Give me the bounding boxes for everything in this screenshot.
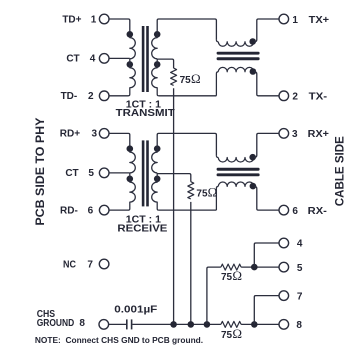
svg-text:2: 2 [88,91,94,102]
junction dot R3 branch to ground rail [204,321,211,328]
choke L2 top winding [218,158,254,162]
choke L1 bottom winding left lead [216,72,218,96]
wire T1 secondary top to choke L1 [157,19,216,40]
svg-text:Ω: Ω [232,268,242,283]
terminal pin 5 circle [99,168,109,178]
svg-text:TX+: TX+ [309,15,330,26]
terminal pin 8 circle (right) [279,320,289,330]
svg-text:3: 3 [292,129,298,140]
junction dot R1 to ground rail [170,321,177,328]
choke L2 bottom winding [218,182,254,186]
terminal pin 4 circle [99,54,109,64]
svg-text:1: 1 [91,14,97,25]
junction dot node pins 7/8 [251,321,258,328]
choke L2 core bar bottom [217,173,260,176]
transformer T1 secondary dot (center) [154,61,161,68]
wire T2 secondary bottom rail to choke L2 bottom [159,209,217,211]
svg-text:4: 4 [297,239,303,250]
transformer T2 core bar left [142,140,145,206]
wire R3 to node pins 4/5 [241,266,279,268]
svg-text:4: 4 [90,54,96,65]
transformer T1 primary bottom half winding [128,59,135,96]
terminal pin 2 circle (right) [279,91,289,101]
choke L1 core bar bottom [217,57,260,60]
svg-text:NOTE: Connect CHS GND to PCB: NOTE: Connect CHS GND to PCB ground. [35,336,203,345]
wire pin1 to T1 primary top [109,19,130,31]
wire ground rail up to resistor R3 [207,267,221,324]
resistor R1 75 ohm (transmit termination) [171,68,177,85]
terminal pin 5 circle (right) [279,262,289,272]
resistor R2 75 ohm (receive termination) [188,182,194,199]
choke L2 top winding dot [249,154,256,161]
svg-text:RD+: RD+ [60,129,80,140]
wire pin5 to T2 primary center tap [109,172,130,174]
resistor R3 75 ohm (pins 4/5 termination) [221,264,241,270]
svg-text:GROUND: GROUND [37,318,74,329]
choke L1 top winding dot [249,38,256,45]
transformer T2 primary dot (top) [127,145,134,152]
wire T1 secondary center tap to R1 [157,59,173,68]
terminal pin 1 circle [99,14,109,24]
wire T2 secondary center tap to R2 [157,174,191,182]
wire R1 bottom to chassis ground rail [173,88,175,324]
wire pin6 to T2 primary bottom [109,209,129,211]
wire choke L2 bottom to pin 6 RX- [254,186,279,210]
wire choke L2 top to pin 3 RX+ [254,133,279,157]
transformer T2 core bar right [146,140,149,206]
choke L1 bottom winding [218,67,254,71]
choke L2 bottom winding left lead [216,186,218,210]
terminal pin 1 circle (right) [279,14,289,24]
transformer T1 core bar right [146,26,149,92]
terminal pin 6 circle [99,205,109,215]
chassis ground rail [132,323,279,325]
svg-text:75: 75 [221,272,233,283]
wire pin3 to T2 primary top [109,133,130,145]
transformer T2 primary top half winding [130,151,136,173]
svg-text:1: 1 [292,15,298,26]
wire node up to pin 4 [254,243,279,267]
svg-text:NC: NC [63,259,76,270]
svg-text:3: 3 [92,129,98,140]
transformer T1 primary dot (center) [127,61,134,68]
terminal pin 4 circle (right) [279,238,289,248]
wire R2 bottom to chassis ground rail [190,202,192,325]
transformer T1 secondary bottom half winding [152,59,159,96]
transformer T2 primary dot (center) [127,176,134,183]
wire node up to pin 7 [254,296,279,325]
svg-text:8: 8 [79,318,85,329]
transformer T2 secondary dot (center) [154,176,161,183]
wire pin8 to capacitor C1 [109,323,127,325]
svg-text:7: 7 [297,292,303,303]
wire choke L1 top to pin 1 TX+ [254,19,279,42]
svg-text:75: 75 [180,75,192,86]
junction dot R2 to ground rail [188,321,195,328]
terminal pin 3 circle (right) [279,129,289,139]
transformer T1 core bar left [142,26,145,92]
transformer T1 primary dot (top) [127,31,134,38]
capacitor C1 left plate [126,319,128,329]
choke L1 core bar top [217,52,260,55]
svg-text:2: 2 [292,92,298,103]
junction dot node pins 4/5 [251,264,258,271]
wire T2 secondary top to choke L2 [157,133,216,155]
svg-text:75: 75 [221,330,233,341]
wire T1 secondary bottom rail to choke L1 bottom [159,95,217,97]
transformer T1 secondary top half winding [152,31,158,58]
transformer T1 primary top half winding [130,37,136,59]
choke L1 bottom winding dot [250,68,257,75]
svg-text:RX+: RX+ [308,129,329,140]
choke L2 top winding left lead [216,156,218,158]
choke L1 top winding left lead [216,40,218,42]
transformer T2 secondary top half winding [152,146,158,173]
terminal pin 8 circle (left) [99,320,109,330]
svg-text:RD-: RD- [60,206,78,217]
terminal pin 2 circle [99,91,109,101]
choke L2 bottom winding dot [250,183,257,190]
svg-text:0.001µF: 0.001µF [114,305,157,316]
svg-text:Ω: Ω [191,71,201,86]
svg-text:CABLE SIDE: CABLE SIDE [332,136,346,206]
svg-text:6: 6 [88,206,94,217]
svg-text:7: 7 [87,259,93,270]
transformer T2 primary bottom half winding [128,173,135,210]
svg-text:75: 75 [196,189,208,200]
svg-text:RECEIVE: RECEIVE [117,223,167,234]
transformer T1 secondary dot (top) [154,31,161,38]
svg-text:RX-: RX- [308,206,327,217]
wire choke L1 bottom to pin 2 TX- [254,72,279,96]
svg-text:Ω: Ω [232,326,242,341]
wire pin4 to T1 primary center tap [109,57,130,59]
terminal pin 7 circle (right) [279,291,289,301]
svg-text:5: 5 [88,168,94,179]
transformer T2 secondary dot (top) [154,145,161,152]
svg-text:TD+: TD+ [62,14,81,25]
svg-text:CT: CT [65,168,78,179]
terminal pin 7 circle (left, NC) [99,259,109,269]
svg-text:8: 8 [296,320,302,331]
svg-text:6: 6 [292,206,298,217]
choke L1 top winding [218,42,254,46]
svg-text:5: 5 [297,263,303,274]
svg-text:PCB SIDE TO PHY: PCB SIDE TO PHY [33,118,47,226]
terminal pin 6 circle (right) [279,205,289,215]
wire pin2 to T1 primary bottom [109,95,129,97]
choke L2 core bar top [217,168,260,171]
svg-text:TD-: TD- [61,91,78,102]
svg-text:TX-: TX- [309,92,328,103]
svg-text:CT: CT [66,54,79,65]
resistor R4 75 ohm (pins 7/8 termination) [221,321,241,327]
transformer T2 secondary bottom half winding [152,173,159,210]
terminal pin 3 circle [99,129,109,139]
capacitor C1 right plate [131,319,133,329]
svg-text:TRANSMIT: TRANSMIT [116,108,175,119]
